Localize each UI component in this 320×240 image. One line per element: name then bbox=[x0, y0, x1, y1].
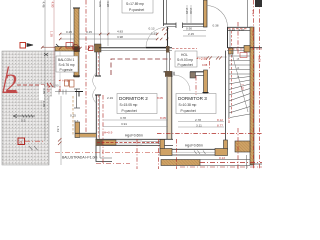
svg-text:3.98: 3.98 bbox=[117, 35, 123, 39]
dim line through parapet bbox=[42, 46, 55, 48]
DORMITOR 2 label bbox=[117, 94, 157, 114]
svg-text:1.35: 1.35 bbox=[42, 101, 46, 107]
svg-text:H=0.9: H=0.9 bbox=[104, 131, 113, 135]
red dashed section line from 2 bbox=[17, 84, 48, 86]
svg-text:P=parchet: P=parchet bbox=[129, 8, 144, 12]
right exterior wall bbox=[250, 27, 254, 165]
svg-text:+2.90: +2.90 bbox=[51, 84, 59, 88]
D2 top wall double line bbox=[99, 47, 172, 49]
extension line 1.54 bbox=[60, 96, 62, 165]
svg-text:+2.90: +2.90 bbox=[62, 79, 70, 83]
svg-text:2.19: 2.19 bbox=[107, 96, 113, 100]
svg-text:S=15.05 mp: S=15.05 mp bbox=[120, 103, 138, 107]
svg-text:3.91: 3.91 bbox=[121, 122, 127, 126]
HOL label box bbox=[175, 51, 197, 67]
misc small marks near balcony bottom bbox=[55, 91, 83, 93]
svg-text:1.35: 1.35 bbox=[50, 31, 54, 37]
svg-text:4.35: 4.35 bbox=[42, 88, 46, 94]
svg-text:8.77: 8.77 bbox=[217, 123, 223, 127]
small dims under upper room bbox=[183, 31, 206, 37]
terrace parapet L wall bottom-left bbox=[75, 122, 80, 138]
stairs bbox=[229, 48, 250, 118]
svg-text:4.05: 4.05 bbox=[98, 1, 102, 7]
thin wall line right bbox=[247, 0, 249, 27]
landing top of stairs wall with red dash bbox=[227, 47, 262, 49]
svg-text:2.15: 2.15 bbox=[188, 32, 194, 36]
svg-text:3.00: 3.00 bbox=[251, 30, 255, 36]
red section line horizontal D3 bbox=[157, 133, 262, 135]
svg-text:0.13: 0.13 bbox=[219, 156, 225, 160]
svg-text:S=9.03 mp: S=9.03 mp bbox=[177, 58, 193, 62]
dim ticks on parapet line bbox=[59, 47, 97, 50]
top small red box marker bbox=[20, 43, 26, 49]
svg-text:P=parchet: P=parchet bbox=[122, 109, 137, 113]
D3 top wall w/ door opening bbox=[190, 71, 204, 73]
svg-text:0.25: 0.25 bbox=[70, 114, 76, 118]
red verticals dash-dot bbox=[86, 0, 260, 169]
svg-text:4.83: 4.83 bbox=[117, 30, 123, 34]
svg-text:P=parchet: P=parchet bbox=[178, 63, 193, 67]
dim ticks left bbox=[58, 138, 62, 145]
divider wall D2/D3 bbox=[167, 72, 172, 139]
BALCON 1 label bbox=[56, 56, 78, 72]
svg-text:S=6.76 mp: S=6.76 mp bbox=[59, 63, 75, 67]
svg-text:S=17.89 mp: S=17.89 mp bbox=[126, 2, 144, 6]
svg-text:DORMITOR 3: DORMITOR 3 bbox=[178, 96, 207, 101]
top right corner black box bbox=[255, 0, 262, 7]
balcony edge line bbox=[59, 51, 61, 91]
wall W1 vertical balcony divider bbox=[74, 8, 79, 77]
balcony door frame marks bbox=[74, 89, 80, 108]
DORMITOR 3 label bbox=[176, 94, 216, 114]
svg-text:4.15: 4.15 bbox=[47, 86, 51, 92]
D3 dims bbox=[178, 122, 224, 128]
svg-text:1.17: 1.17 bbox=[151, 32, 157, 36]
door jamb block bbox=[166, 46, 170, 53]
bottom right corner lines bbox=[250, 163, 262, 165]
D3 door arc bbox=[174, 75, 190, 91]
svg-text:P=gresie: P=gresie bbox=[60, 68, 73, 72]
svg-text:0.88: 0.88 bbox=[202, 63, 208, 67]
svg-text:8.05: 8.05 bbox=[157, 96, 163, 100]
svg-text:0.25: 0.25 bbox=[66, 30, 72, 34]
red marker box junction bbox=[89, 46, 94, 51]
svg-text:0.38: 0.38 bbox=[213, 24, 219, 28]
svg-text:2.78: 2.78 bbox=[195, 118, 201, 122]
svg-text:5.5: 5.5 bbox=[21, 119, 26, 123]
extension lines top bbox=[45, 0, 108, 140]
lower-left corner walls bbox=[96, 146, 112, 162]
svg-text:P=parchet: P=parchet bbox=[181, 109, 196, 113]
svg-text:3.11: 3.11 bbox=[196, 123, 202, 127]
svg-text:BALCON 1: BALCON 1 bbox=[58, 58, 74, 62]
svg-text:4.90: 4.90 bbox=[51, 2, 55, 8]
svg-text:DORMITOR 2: DORMITOR 2 bbox=[119, 96, 148, 101]
red marker box on wall bbox=[66, 43, 73, 49]
svg-text:8.12: 8.12 bbox=[217, 118, 223, 122]
svg-text:0.90: 0.90 bbox=[186, 27, 192, 31]
bottom terrace band below D3 bbox=[161, 160, 200, 166]
balcony top parapet wall bbox=[55, 47, 74, 52]
svg-text:1.28: 1.28 bbox=[241, 84, 245, 90]
wall D2/HOL short bbox=[167, 52, 170, 72]
D2 left exterior wall bbox=[95, 46, 97, 76]
dimension ticks bbox=[59, 28, 168, 40]
red section dashes bottom-left bbox=[96, 163, 130, 165]
furniture boxes balcony bbox=[65, 80, 69, 86]
svg-text:S=10.38 mp: S=10.38 mp bbox=[179, 103, 197, 107]
top label box S=17.89 bbox=[122, 0, 153, 13]
horizontal dimension lines top bbox=[60, 34, 157, 39]
svg-text:8.05: 8.05 bbox=[160, 116, 166, 120]
wall junction block bbox=[74, 46, 80, 52]
door leaf + arc top (to upper room) bbox=[167, 27, 169, 47]
stair walk line bbox=[231, 50, 248, 112]
red box marker on terrace with dashdot bbox=[18, 138, 25, 145]
section mark big red 2 bbox=[3, 67, 19, 99]
svg-text:+2.90: +2.90 bbox=[199, 57, 207, 61]
divider junction block bbox=[160, 140, 165, 150]
balcony french door arcs bbox=[93, 73, 97, 103]
extension line left red bbox=[53, 0, 55, 96]
svg-text:1.17: 1.17 bbox=[251, 10, 255, 16]
top right door arc bbox=[206, 6, 228, 28]
arrow on terrace bbox=[13, 114, 35, 117]
red dashed line stairwell bbox=[231, 31, 233, 115]
interior dim lines D2 bottom bbox=[103, 120, 168, 126]
wall from door to right wall bbox=[228, 26, 251, 28]
svg-text:0.13: 0.13 bbox=[149, 27, 155, 31]
svg-text:4.46: 4.46 bbox=[42, 2, 46, 8]
svg-text:BALUSTRADA H=1.0m: BALUSTRADA H=1.0m bbox=[62, 156, 98, 160]
balustrada text and line bbox=[55, 152, 160, 154]
stair left wall stub bbox=[227, 27, 229, 48]
D3 bottom wall band bbox=[172, 148, 215, 150]
svg-text:Hgol=0.60m: Hgol=0.60m bbox=[125, 134, 143, 138]
svg-text:3.78: 3.78 bbox=[120, 116, 126, 120]
dimension rotated texts left over hatch bbox=[39, 85, 44, 100]
HOL right wall brown bbox=[204, 70, 208, 93]
svg-text:0.15: 0.15 bbox=[86, 30, 92, 34]
D3 right wall (stair side) bbox=[225, 51, 227, 141]
terrace hatched area bbox=[2, 51, 55, 165]
svg-text:4.98: 4.98 bbox=[106, 1, 110, 7]
svg-text:HOL: HOL bbox=[181, 53, 188, 57]
svg-text:Hgol=0.60m: Hgol=0.60m bbox=[185, 144, 203, 148]
svg-text:0.7: 0.7 bbox=[74, 119, 79, 123]
svg-text:2: 2 bbox=[5, 69, 18, 98]
svg-text:2.06: 2.06 bbox=[189, 8, 193, 14]
svg-text:1.02: 1.02 bbox=[227, 118, 231, 124]
upper middle room dim lines bbox=[187, 5, 191, 23]
svg-text:2.15: 2.15 bbox=[185, 8, 189, 14]
upper middle room walls bbox=[163, 0, 165, 26]
svg-text:1.54: 1.54 bbox=[56, 126, 60, 132]
D2 interior dashed rect bbox=[111, 59, 171, 75]
D2 bottom wall band bbox=[96, 138, 174, 140]
